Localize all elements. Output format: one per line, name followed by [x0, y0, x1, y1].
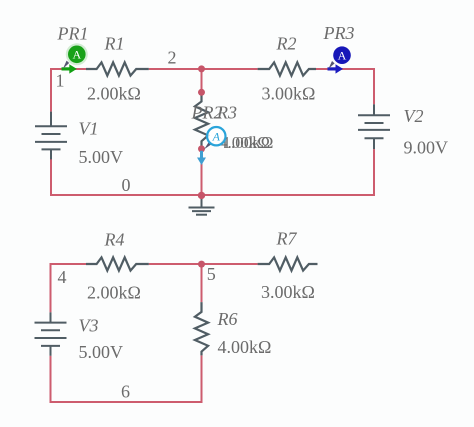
svg-text:6: 6	[121, 382, 130, 402]
battery V2 9.00V	[358, 104, 390, 149]
wire: top-left horizontal node1 to R1	[51, 68, 86, 70]
wire: right vertical top (corner to V2)	[373, 68, 375, 104]
resistor R1 2.00kΩ	[86, 62, 149, 75]
wire: left vertical top (node1 to V1)	[50, 68, 52, 112]
svg-text:R4: R4	[104, 230, 125, 250]
node dot ground junction	[198, 192, 205, 199]
wire: left vertical bottom (V1 to bottom rail)	[50, 159, 52, 196]
svg-text:R6: R6	[217, 309, 238, 329]
svg-text:A: A	[72, 48, 81, 62]
node junction dot at node 5	[198, 261, 205, 268]
wire: node 2 to R2	[202, 68, 258, 70]
svg-text:5: 5	[207, 264, 216, 284]
wire: R4 to node 5	[149, 263, 202, 265]
wire: R2 to top-right corner	[316, 68, 374, 70]
wire: node 5 down to R6	[201, 264, 203, 302]
svg-text:1: 1	[56, 71, 65, 91]
wire: right vertical bottom (V2 to bottom rail)	[373, 149, 375, 196]
svg-text:R1: R1	[104, 33, 125, 53]
wire: R6 bottom to node 6 rail	[201, 355, 203, 403]
resistor R2 3.00kΩ	[258, 62, 316, 75]
wire: node 2 down to R3	[201, 69, 203, 92]
svg-text:R3: R3	[216, 102, 237, 122]
probe PR3 circle	[333, 46, 351, 64]
node dot R3 bottom terminal	[198, 145, 205, 152]
probe PR2 circle (drawn over value text)	[207, 127, 225, 145]
svg-text:5.00V: 5.00V	[79, 342, 124, 362]
svg-text:R7: R7	[276, 228, 298, 248]
svg-text:3.00kΩ: 3.00kΩ	[261, 282, 315, 302]
svg-text:V2: V2	[404, 106, 424, 126]
svg-text:4.00kΩ: 4.00kΩ	[219, 133, 270, 152]
probe PR1 circle	[66, 43, 88, 65]
battery V3 5.00V	[35, 312, 67, 356]
wire: R3 bottom to ground rail	[201, 149, 203, 195]
wire: node 5 to R7	[202, 263, 258, 265]
svg-text:3.00kΩ: 3.00kΩ	[262, 83, 316, 103]
svg-text:PR3: PR3	[323, 23, 355, 43]
svg-text:0: 0	[122, 175, 131, 195]
svg-text:2.00kΩ: 2.00kΩ	[87, 282, 141, 302]
svg-text:5.00V: 5.00V	[79, 147, 124, 167]
svg-text:A: A	[212, 130, 221, 144]
wire: bottom rail of top circuit (node 0)	[50, 194, 375, 196]
svg-text:PR1: PR1	[57, 23, 89, 43]
ground (node 0)	[189, 196, 215, 215]
probe PR2 (cyan current probe) down arrow	[197, 151, 206, 165]
wire: R1 to node 2	[149, 68, 202, 70]
svg-text:2: 2	[168, 48, 177, 68]
resistor R6 4.00kΩ (vertical)	[195, 302, 208, 355]
probe PR1 (green current probe) arrow	[62, 64, 77, 73]
svg-text:4.00kΩ: 4.00kΩ	[218, 337, 272, 357]
svg-text:2.00kΩ: 2.00kΩ	[87, 83, 141, 103]
resistor R7 3.00kΩ (open right end)	[258, 257, 318, 270]
svg-text:V3: V3	[79, 315, 99, 335]
svg-text:9.00V: 9.00V	[404, 137, 449, 157]
resistor R3 4.00kΩ (vertical)	[195, 92, 208, 149]
svg-text:A: A	[338, 49, 347, 63]
resistor R4 2.00kΩ	[86, 257, 149, 270]
probe PR1 needle	[63, 61, 69, 69]
wire: bottom rail (node 6)	[50, 401, 203, 403]
wire: left vertical bottom (V3 to node 6 rail)	[50, 356, 52, 403]
probe PR3 needle	[329, 61, 335, 69]
svg-text:V1: V1	[79, 118, 99, 138]
wire: bottom circuit top-left (node 4 to R4)	[51, 263, 87, 265]
probe PR3 (blue current probe) arrow	[328, 64, 344, 73]
battery V1 5.00V	[35, 112, 67, 160]
node junction dot at node 2	[198, 65, 205, 72]
svg-text:R2: R2	[276, 33, 297, 53]
probe PR2 needle	[204, 142, 211, 149]
wire: left vertical top (node4 to V3)	[50, 263, 52, 312]
svg-text:4: 4	[58, 267, 67, 287]
node dot R3 top terminal	[198, 89, 205, 96]
